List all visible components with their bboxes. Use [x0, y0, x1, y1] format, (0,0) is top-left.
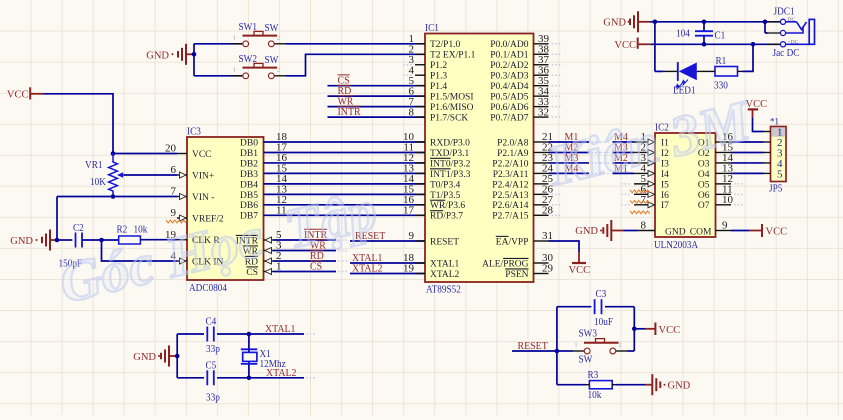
svg-text:C1: C1: [715, 30, 726, 42]
svg-text:*1: *1: [770, 117, 779, 127]
wire C4 row / net XTAL1: [177, 333, 315, 335]
label SW2: [239, 53, 279, 66]
svg-text:SW: SW: [265, 22, 279, 34]
power port VCC (left): [7, 87, 44, 100]
label ADC0804: [189, 282, 227, 294]
capacitor C2: [76, 233, 83, 248]
node switch common: [192, 52, 197, 57]
svg-text:P2.2/A10: P2.2/A10: [492, 159, 528, 169]
pin 28 IC1: [492, 204, 560, 221]
ground GND (ADC clock): [10, 230, 57, 251]
wire net M3 to IC2 pin2: [613, 151, 635, 153]
crystal X1: [241, 349, 257, 364]
svg-text:GND: GND: [133, 352, 156, 363]
label SW3 SW: [579, 328, 598, 366]
node crystal gnd: [175, 354, 180, 359]
wire net CS to IC1 pin5: [328, 85, 426, 87]
svg-text:10uF: 10uF: [594, 316, 613, 328]
svg-text:SW: SW: [579, 354, 593, 366]
capacitor C4: [207, 327, 214, 342]
svg-text:I7: I7: [661, 201, 669, 211]
pin 13 IC2 O4: [698, 163, 734, 180]
pin 12 IC2 O5: [698, 173, 743, 190]
wire to IC3 CLK IN: [102, 240, 178, 261]
wire IC2 O3 to JP5 pin4: [731, 162, 764, 164]
pin 6 IC3 VIN+: [171, 164, 215, 181]
pin 27 IC1: [492, 194, 560, 211]
label JP5: [769, 183, 783, 195]
capacitor C3: [595, 299, 602, 314]
net label M3 (IC2 side): [614, 141, 628, 153]
pin DB1 IC3 / wire to IC1 pin11: [240, 142, 425, 159]
node C2/R2/CLKIN: [99, 238, 104, 243]
pin 7 IC1: [409, 96, 474, 113]
pin 22 IC1: [497, 142, 553, 159]
svg-text:P2.1/A9: P2.1/A9: [497, 149, 529, 159]
pin 25 IC1: [492, 173, 560, 190]
svg-text:R3: R3: [588, 369, 599, 381]
svg-text:LED1: LED1: [673, 85, 696, 97]
wire X1 vertical: [248, 334, 250, 378]
svg-text:C4: C4: [206, 316, 217, 328]
pin 1 IC3 CS: [246, 261, 281, 278]
svg-text:DB4: DB4: [240, 180, 258, 190]
LED LED1: [663, 62, 710, 89]
label C4 33p: [206, 316, 221, 356]
wire IC1 pin31 to VCC: [549, 241, 580, 252]
pin 4 IC2 I4: [600, 163, 669, 180]
wire net M3 from IC1 pin23: [549, 162, 601, 164]
node GND/C2: [55, 238, 60, 243]
op-amp IC3 ADC0804 box: [187, 137, 264, 280]
pin 5 IC1: [409, 75, 448, 92]
svg-text:O7: O7: [698, 201, 710, 211]
label IC3: [187, 126, 201, 138]
svg-text:JDC1: JDC1: [774, 6, 795, 18]
svg-text:R1: R1: [716, 55, 727, 67]
svg-text:P0.0/AD0: P0.0/AD0: [490, 40, 529, 50]
svg-text:RD/P3.7: RD/P3.7: [430, 212, 463, 222]
svg-text:GND: GND: [575, 226, 598, 237]
pin 33 IC1: [490, 96, 560, 113]
pin 38 IC1: [490, 43, 560, 60]
svg-text:JP5: JP5: [769, 183, 783, 195]
label LED1: [673, 85, 696, 97]
wire net XTAL2 to IC1 pin19: [350, 273, 425, 275]
wire net M2 from IC1 pin22: [549, 152, 601, 154]
pin 35 IC1: [490, 75, 560, 92]
pin 2 IC1: [409, 43, 476, 60]
node VR1 bottom: [111, 194, 116, 199]
svg-text:1: 1: [575, 343, 578, 349]
wire VCC to VR1/IC3: [44, 94, 114, 154]
net label XTAL1: [352, 252, 383, 264]
pin 9 IC3 VREF/2: [171, 207, 224, 224]
pin DB3 IC3 / wire to IC1 pin13: [240, 163, 425, 180]
resistor R1: [710, 67, 743, 77]
svg-text:WR/P3.6: WR/P3.6: [430, 201, 465, 211]
resistor R2: [119, 236, 141, 244]
node GND rail / C1 / JDC1: [653, 20, 768, 25]
pin DB2 IC3 / wire to IC1 pin12: [240, 152, 425, 169]
wire R1 to VCC rail: [743, 44, 754, 71]
svg-text:C5: C5: [206, 360, 217, 372]
net label INTR: [304, 229, 328, 241]
svg-text:O5: O5: [698, 180, 710, 190]
pin 16 IC2 O1: [698, 131, 734, 148]
wire net INTR: [274, 239, 347, 241]
svg-text:29: 29: [542, 263, 554, 275]
resistor R3: [586, 381, 616, 389]
svg-text:XTAL2: XTAL2: [266, 367, 297, 379]
label X1 12Mhz: [260, 348, 286, 370]
label VR1 10K: [85, 159, 106, 188]
switch SW3: [573, 339, 628, 354]
svg-text:10K: 10K: [90, 176, 106, 188]
wire VCC to JP5 pin1: [753, 117, 764, 131]
svg-text:8: 8: [409, 106, 415, 118]
wire net INTR to IC1 pin8: [328, 116, 426, 118]
svg-text:P2.0/A8: P2.0/A8: [497, 138, 529, 148]
net label RESET: [355, 230, 386, 242]
svg-text:I6: I6: [661, 191, 669, 201]
pin 12 IC1: [403, 152, 471, 169]
svg-text:P0.2/AD2: P0.2/AD2: [490, 61, 529, 71]
wire GND node down to LED: [655, 22, 663, 72]
watermark: [53, 89, 758, 316]
net label RD: [338, 85, 352, 97]
svg-text:P2.3/A11: P2.3/A11: [493, 170, 529, 180]
svg-text:IC3: IC3: [187, 126, 201, 138]
svg-text:8: 8: [641, 220, 647, 232]
label C3 10uF: [594, 288, 613, 328]
svg-text:VCC: VCC: [569, 265, 591, 276]
label 104 C1: [676, 28, 725, 42]
svg-text:R2: R2: [117, 224, 128, 236]
power port VCC (top right): [614, 38, 650, 51]
svg-text:XTAL2: XTAL2: [430, 270, 460, 280]
pin DB4 IC3 / wire to IC1 pin14: [240, 173, 425, 190]
svg-text:32: 32: [538, 106, 549, 118]
pin DB6 IC3 / wire to IC1 pin16: [240, 194, 425, 211]
svg-text:GND: GND: [146, 50, 169, 61]
svg-text:INT1/P3.3: INT1/P3.3: [430, 170, 471, 180]
pin 29 IC1 PSEN: [505, 263, 553, 280]
node VCC branch: [632, 327, 637, 332]
net label M4 (IC2 side): [614, 131, 628, 143]
wire C3 row: [557, 306, 634, 308]
wire net RD to IC1 pin6: [328, 95, 426, 97]
svg-text:1: 1: [233, 35, 236, 41]
pin 5 IC3 INTR: [236, 229, 282, 246]
net label INTR: [338, 106, 362, 118]
pin 11 IC2 O6: [698, 184, 743, 201]
node VCC rail: [702, 42, 756, 47]
connector JDC1 power jack: [765, 6, 815, 60]
pin 19 IC1 XTAL2: [403, 263, 460, 280]
wire IC2 O2 to JP5 pin3: [731, 151, 764, 153]
ground GND (top right): [603, 11, 650, 32]
svg-text:T1/P3.5: T1/P3.5: [430, 191, 461, 201]
svg-text:P0.5/AD5: P0.5/AD5: [490, 93, 529, 103]
svg-text:T0/P3.4: T0/P3.4: [430, 180, 461, 190]
svg-text:I5: I5: [661, 180, 669, 190]
svg-text:GND: GND: [603, 17, 626, 28]
svg-text:7: 7: [641, 194, 647, 206]
pin 10 IC2 O7: [698, 194, 743, 211]
pin 39 IC1: [490, 33, 560, 50]
microcontroller IC1 AT89S52 box: [425, 34, 534, 283]
pin 4 IC1: [403, 64, 447, 81]
pin 2 IC3 RD: [245, 250, 282, 267]
net label RESET (reset circuit): [518, 340, 549, 352]
svg-text:SW3: SW3: [579, 328, 598, 340]
svg-text:PSEN: PSEN: [505, 270, 528, 280]
svg-text:P0.6/AD6: P0.6/AD6: [490, 103, 529, 113]
capacitor C5: [207, 370, 214, 385]
svg-text:COM: COM: [690, 228, 712, 238]
svg-text:DB2: DB2: [240, 159, 258, 169]
wire switch common vertical: [193, 44, 195, 76]
svg-text:2: 2: [619, 343, 622, 349]
wire net RESET (reset circuit): [512, 350, 557, 352]
svg-text:P2.6/A14: P2.6/A14: [492, 201, 528, 211]
pin 6 IC1: [409, 85, 474, 102]
svg-text:6: 6: [171, 164, 177, 176]
switch SW2: [231, 63, 286, 78]
pin 36 IC1: [490, 64, 560, 81]
wire crystal left riser: [176, 334, 178, 378]
ground GND (crystal): [133, 346, 177, 367]
pin 11 IC1: [403, 142, 469, 159]
net label WR: [338, 96, 354, 108]
pin 9 IC1 RESET: [409, 230, 460, 247]
svg-text:TXD/P3.1: TXD/P3.1: [430, 149, 470, 159]
driver IC2 ULN2003A box: [655, 133, 716, 237]
wire COM to VCC: [731, 230, 762, 232]
node RESET: [555, 349, 560, 354]
wire net M2 to IC2 pin3: [613, 162, 635, 164]
wire VIN- row: [57, 196, 177, 198]
node XTAL1/X1: [247, 332, 252, 337]
pin 2 IC2 I2: [600, 142, 669, 159]
svg-text:INT0/P3.2: INT0/P3.2: [430, 159, 471, 169]
svg-text:P1.3: P1.3: [430, 72, 447, 82]
net label WR: [310, 240, 326, 252]
wire net RD: [274, 260, 347, 262]
pin 10 IC1: [403, 131, 470, 148]
pin 32 IC1: [490, 106, 560, 123]
wire GND rail top: [650, 21, 780, 23]
net label M4: [565, 162, 579, 174]
wire R2 to IC3 CLK R: [140, 239, 177, 241]
svg-text:P2.5/A13: P2.5/A13: [492, 191, 528, 201]
svg-text:VIN -: VIN -: [192, 193, 214, 203]
wire SW1 to IC1 pin1: [286, 43, 425, 45]
svg-text:SW2: SW2: [239, 53, 258, 65]
svg-text:17: 17: [403, 204, 415, 216]
pin 1 IC2 I1: [600, 131, 669, 148]
pin 3 IC1: [403, 54, 447, 71]
label IC2: [655, 122, 669, 134]
wire SW3 to risers: [557, 350, 634, 352]
label IC1: [425, 22, 439, 34]
svg-text:P0.3/AD3: P0.3/AD3: [490, 72, 529, 82]
svg-text:VCC: VCC: [7, 89, 29, 100]
svg-text:5: 5: [777, 168, 783, 180]
svg-text:P2.4/A12: P2.4/A12: [492, 180, 528, 190]
svg-text:IC1: IC1: [425, 22, 439, 34]
label C5 33p: [206, 360, 221, 404]
svg-text:2: 2: [277, 35, 280, 41]
svg-text:Jac DC: Jac DC: [773, 47, 800, 59]
pin 15 IC2 O2: [698, 142, 734, 159]
wire net WR: [274, 250, 347, 252]
svg-text:SW: SW: [265, 54, 279, 66]
pin 6 IC2 I6: [621, 184, 669, 201]
svg-text:7: 7: [171, 186, 177, 198]
svg-text:1: 1: [233, 67, 236, 73]
wire VCC rail: [651, 43, 781, 45]
net label CS: [338, 75, 350, 87]
svg-text:10: 10: [722, 194, 734, 206]
wire GND to C2: [57, 239, 72, 241]
wire C5 row / net XTAL2: [177, 377, 315, 379]
wire to IC3 pin20: [113, 153, 177, 155]
svg-text:O4: O4: [698, 170, 710, 180]
svg-text:33p: 33p: [206, 343, 220, 355]
pin 7 IC2 I7: [621, 194, 669, 211]
svg-text:P0.1/AD1: P0.1/AD1: [490, 51, 529, 61]
svg-text:ULN2003A: ULN2003A: [654, 239, 698, 251]
ground GND (switch common): [146, 44, 194, 65]
net label RD: [310, 250, 324, 262]
wire IC2 O1 to JP5 pin2: [731, 141, 764, 143]
svg-text:C2: C2: [73, 222, 84, 234]
net label M1 (IC2 side): [614, 162, 628, 174]
wire net RESET to IC1 pin9: [350, 240, 425, 242]
label C2 150pF: [59, 222, 84, 270]
pin 14 IC2 O3: [698, 152, 734, 169]
svg-text:VR1: VR1: [85, 159, 103, 171]
svg-text:T2 EX/P1.1: T2 EX/P1.1: [430, 51, 476, 61]
svg-text:XTAL2: XTAL2: [352, 263, 383, 275]
label SW1: [239, 21, 279, 34]
capacitor C1 104: [695, 22, 713, 45]
svg-text:9: 9: [409, 230, 415, 242]
svg-text:GND: GND: [668, 381, 691, 392]
svg-text:VCC: VCC: [766, 227, 788, 238]
svg-text:RESET: RESET: [430, 237, 459, 247]
svg-text:EA/VPP: EA/VPP: [496, 237, 529, 247]
wire SW2 to IC1 pin2: [286, 54, 425, 76]
svg-text:19: 19: [403, 263, 415, 275]
pin 23 IC1: [492, 152, 553, 169]
svg-text:P1.7/SCK: P1.7/SCK: [430, 113, 468, 123]
pin 1 IC1: [409, 33, 461, 50]
svg-text:RESET: RESET: [518, 340, 549, 352]
svg-text:AT89S52: AT89S52: [426, 284, 461, 296]
pin DB0 IC3 / wire to IC1 pin10: [240, 131, 425, 148]
power port VCC (EA pin): [569, 252, 591, 276]
svg-text:P1.4: P1.4: [430, 82, 447, 92]
pin 34 IC1: [490, 85, 560, 102]
svg-text:P2.7/A15: P2.7/A15: [492, 212, 528, 222]
svg-text:DB0: DB0: [240, 138, 258, 148]
svg-text:C3: C3: [596, 288, 607, 300]
svg-text:XTAL1: XTAL1: [430, 259, 460, 269]
svg-text:P1.2: P1.2: [430, 61, 447, 71]
svg-text:9: 9: [171, 207, 177, 219]
pin 5 IC2 I5: [621, 173, 669, 190]
pin 16 IC1: [403, 194, 465, 211]
power port VCC (IC2 COM): [762, 224, 787, 238]
pin 18 IC1 XTAL1: [403, 252, 460, 269]
wire net M1 from IC1 pin21: [549, 141, 601, 143]
ground GND (IC2): [575, 220, 623, 241]
node VCC/VR1: [111, 151, 116, 156]
pin 8 IC1: [409, 106, 469, 123]
wire GND to SW2: [194, 75, 242, 77]
node XTAL2/X1: [247, 376, 252, 381]
svg-text:VCC: VCC: [192, 150, 212, 160]
net label CS: [310, 261, 322, 273]
svg-text:P0.7/AD7: P0.7/AD7: [490, 113, 529, 123]
wire R3 row: [557, 384, 586, 386]
no-ERC markers IC2 pins 5-7: [630, 190, 650, 214]
wire reset right riser: [633, 307, 635, 351]
svg-text:2: 2: [277, 67, 280, 73]
pin 15 IC1: [403, 184, 461, 201]
net label M1: [565, 131, 579, 143]
wire net CS: [274, 271, 347, 273]
wire net WR to IC1 pin7: [328, 106, 426, 108]
wire net M1 to IC2 pin4: [613, 172, 635, 174]
pin 26 IC1: [492, 184, 560, 201]
pin DB5 IC3 / wire to IC1 pin15: [240, 184, 425, 201]
wire R3 to GND: [616, 384, 652, 386]
svg-text:28: 28: [542, 204, 554, 216]
pin 21 IC1: [497, 131, 553, 148]
pin 9 IC2 COM: [690, 220, 731, 238]
svg-text:SW1: SW1: [239, 21, 258, 33]
pin 30 IC1 ALE/PROG: [482, 252, 553, 269]
svg-text:ALE/PROG: ALE/PROG: [482, 259, 529, 269]
pin 37 IC1: [490, 54, 560, 71]
svg-text:P1.5/MOSI: P1.5/MOSI: [430, 93, 474, 103]
wire C2 to R2: [82, 239, 119, 241]
label *1: [770, 117, 779, 127]
label R1 330: [714, 55, 728, 92]
svg-text:P0.4/AD4: P0.4/AD4: [490, 82, 529, 92]
svg-text:P1.6/MISO: P1.6/MISO: [430, 103, 474, 113]
pin 3 IC2 I3: [600, 152, 669, 169]
net label XTAL2 (crystal): [266, 367, 297, 379]
svg-text:DB5: DB5: [240, 191, 258, 201]
net label XTAL1 (crystal): [265, 323, 296, 335]
svg-text:VCC: VCC: [659, 325, 681, 336]
connector JP5: [764, 127, 787, 182]
label ULN2003A: [654, 239, 698, 251]
wire net M4 to IC2 pin1: [613, 141, 635, 143]
pin 4 IC3 CLK IN: [171, 250, 224, 267]
net label M2 (IC2 side): [614, 152, 628, 164]
wire left riser to GND row: [56, 197, 58, 241]
no-ERC marker on VREF/2: [166, 220, 186, 223]
svg-text:GND: GND: [10, 236, 33, 247]
pin DB7 IC3 / wire to IC1 pin17: [240, 204, 425, 221]
label AT89S52: [426, 284, 461, 296]
